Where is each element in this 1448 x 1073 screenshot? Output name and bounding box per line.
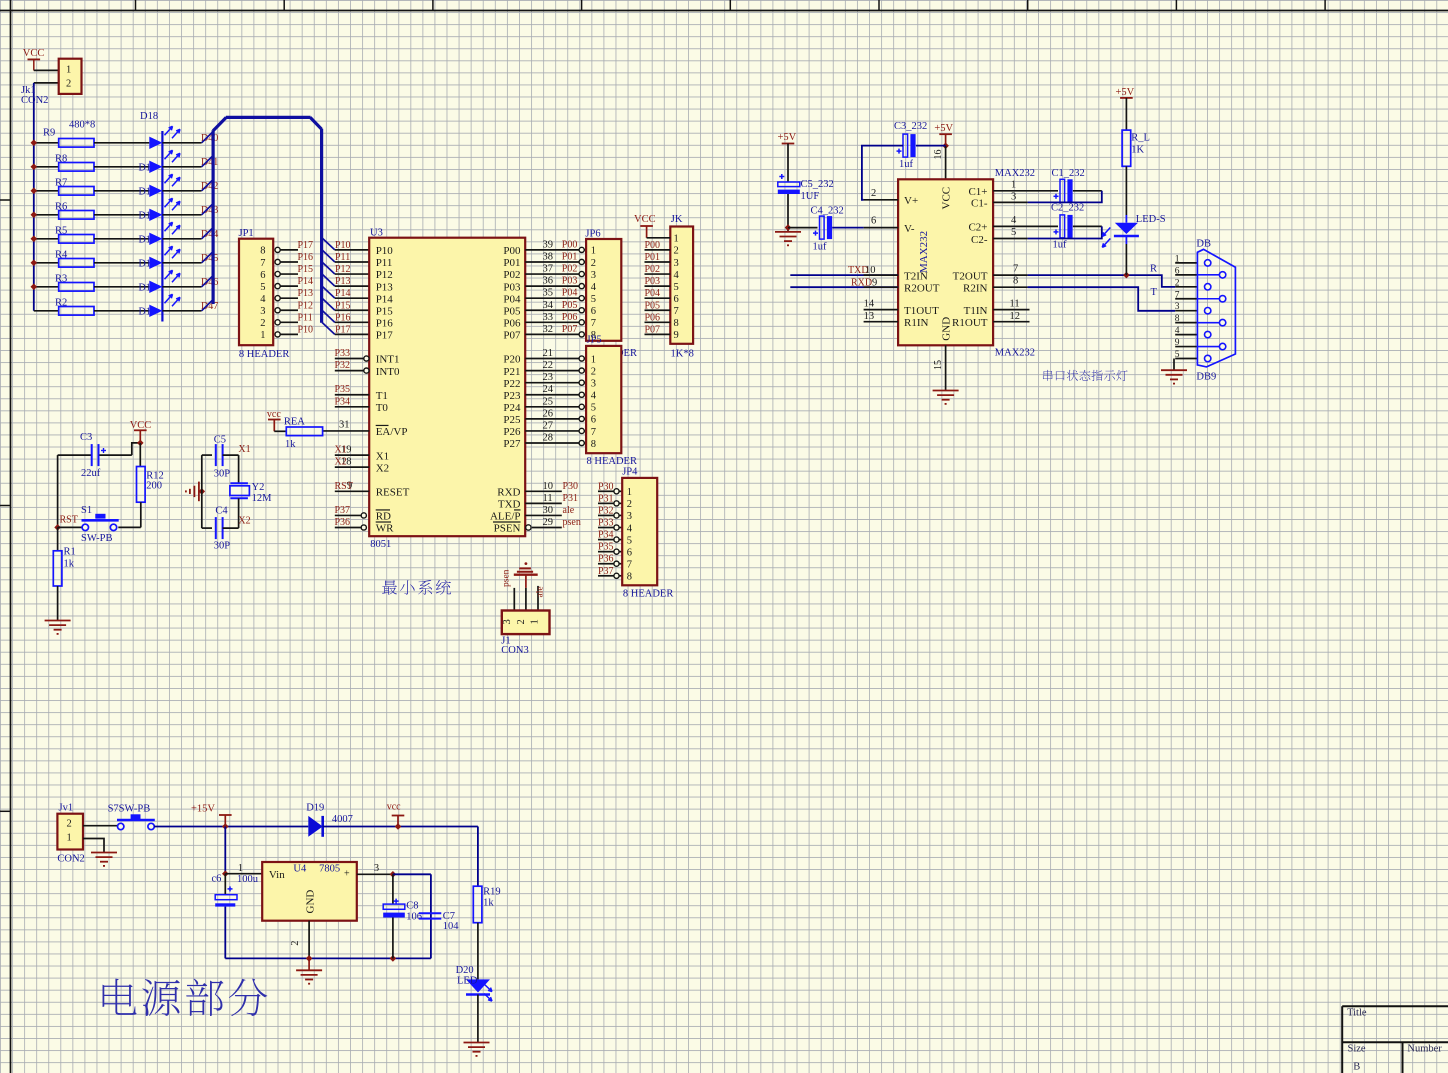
svg-text:VCC: VCC (941, 187, 953, 210)
svg-text:8: 8 (674, 318, 679, 329)
svg-text:39: 39 (543, 239, 554, 250)
svg-text:25: 25 (543, 396, 554, 407)
svg-text:3: 3 (1011, 192, 1016, 203)
svg-text:P24: P24 (503, 402, 521, 414)
svg-text:T1OUT: T1OUT (904, 305, 939, 317)
svg-text:C2_232: C2_232 (1051, 203, 1084, 214)
svg-text:+5V: +5V (778, 132, 797, 143)
svg-text:S7SW-PB: S7SW-PB (108, 804, 151, 815)
svg-text:100u: 100u (237, 874, 259, 885)
svg-text:DB9: DB9 (1196, 372, 1216, 383)
svg-text:Y2: Y2 (252, 482, 265, 493)
svg-text:PSEN: PSEN (494, 523, 521, 535)
svg-text:REA: REA (284, 417, 305, 428)
svg-text:1UF: 1UF (801, 191, 820, 202)
svg-text:JP5: JP5 (587, 335, 602, 346)
svg-text:4: 4 (591, 282, 597, 293)
svg-text:22uf: 22uf (81, 468, 101, 479)
svg-text:14: 14 (864, 299, 875, 310)
svg-text:7: 7 (591, 318, 596, 329)
svg-text:R1IN: R1IN (904, 317, 929, 329)
svg-text:P01: P01 (503, 257, 520, 269)
svg-text:24: 24 (543, 384, 554, 395)
svg-text:P03: P03 (562, 276, 578, 287)
svg-text:P07: P07 (503, 330, 521, 342)
svg-text:X2: X2 (376, 462, 389, 474)
svg-text:1: 1 (1175, 254, 1180, 264)
svg-text:DB: DB (1196, 239, 1211, 250)
svg-text:SW-PB: SW-PB (81, 533, 113, 544)
svg-text:GND: GND (305, 890, 317, 914)
svg-text:+5V: +5V (1116, 87, 1135, 98)
svg-text:P06: P06 (562, 312, 578, 323)
svg-text:6: 6 (627, 547, 632, 558)
svg-text:12M: 12M (252, 493, 273, 504)
svg-text:32: 32 (543, 324, 554, 335)
svg-text:P37: P37 (335, 505, 351, 516)
svg-text:26: 26 (543, 408, 554, 419)
svg-text:7: 7 (260, 258, 265, 269)
svg-text:P32: P32 (335, 360, 351, 371)
svg-text:R_L: R_L (1131, 133, 1150, 144)
svg-text:2: 2 (67, 818, 72, 829)
svg-text:4: 4 (591, 391, 597, 402)
svg-text:7: 7 (1175, 290, 1180, 300)
svg-text:P05: P05 (503, 305, 521, 317)
svg-text:4: 4 (627, 523, 633, 534)
svg-text:12: 12 (1010, 311, 1021, 322)
svg-text:P10: P10 (376, 245, 394, 257)
svg-text:5: 5 (1011, 227, 1016, 238)
svg-text:P35: P35 (598, 542, 614, 553)
svg-text:P15: P15 (376, 305, 394, 317)
svg-text:vcc: vcc (387, 802, 401, 813)
svg-text:5: 5 (591, 403, 596, 414)
svg-text:Vin: Vin (269, 869, 285, 881)
svg-text:1K: 1K (1131, 145, 1144, 156)
svg-text:P00: P00 (645, 240, 661, 251)
svg-text:7: 7 (591, 427, 596, 438)
svg-text:MAX232: MAX232 (995, 168, 1035, 179)
svg-text:D20: D20 (456, 965, 474, 976)
svg-text:T2OUT: T2OUT (953, 270, 988, 282)
svg-text:23: 23 (543, 372, 554, 383)
svg-text:TXD: TXD (498, 499, 521, 511)
svg-text:P06: P06 (645, 312, 661, 323)
svg-text:P33: P33 (335, 348, 351, 359)
svg-text:1k: 1k (483, 898, 494, 909)
svg-text:1: 1 (591, 354, 596, 365)
svg-text:R8: R8 (55, 153, 67, 164)
svg-text:10: 10 (865, 265, 876, 276)
svg-text:P03: P03 (645, 276, 661, 287)
svg-text:8 HEADER: 8 HEADER (587, 456, 637, 467)
svg-text:P05: P05 (645, 300, 661, 311)
svg-text:35: 35 (543, 288, 554, 299)
svg-text:6: 6 (871, 216, 876, 227)
svg-text:JP4: JP4 (622, 467, 638, 478)
svg-text:P15: P15 (335, 300, 351, 311)
svg-text:3: 3 (591, 270, 596, 281)
svg-text:3: 3 (591, 378, 596, 389)
svg-text:P11: P11 (335, 252, 350, 263)
svg-text:P06: P06 (503, 318, 521, 330)
svg-text:P05: P05 (562, 300, 578, 311)
svg-text:9: 9 (872, 278, 877, 289)
svg-text:T: T (1151, 287, 1158, 298)
svg-text:R9: R9 (43, 128, 55, 139)
svg-text:R3: R3 (55, 273, 67, 284)
svg-text:D18: D18 (140, 111, 158, 122)
svg-text:3: 3 (374, 863, 379, 874)
svg-text:P36: P36 (598, 554, 614, 565)
svg-text:30P: 30P (214, 541, 231, 552)
svg-text:X1: X1 (335, 445, 347, 456)
svg-text:WR: WR (376, 523, 394, 535)
svg-text:VCC: VCC (130, 420, 152, 431)
svg-text:R1OUT: R1OUT (952, 317, 988, 329)
svg-text:C1+: C1+ (968, 186, 987, 198)
svg-text:C2-: C2- (971, 234, 988, 246)
svg-text:2: 2 (1175, 278, 1180, 288)
svg-text:6: 6 (1175, 266, 1180, 276)
svg-text:P04: P04 (503, 293, 521, 305)
svg-text:P00: P00 (503, 245, 521, 257)
svg-text:CON3: CON3 (501, 645, 528, 656)
svg-text:P37: P37 (598, 566, 614, 577)
svg-text:P04: P04 (645, 288, 661, 299)
svg-text:JP6: JP6 (585, 229, 600, 240)
svg-text:4: 4 (1175, 326, 1180, 336)
svg-text:INT0: INT0 (376, 366, 400, 378)
svg-text:11: 11 (543, 493, 553, 504)
svg-text:P13: P13 (298, 288, 314, 299)
svg-text:P31: P31 (563, 493, 579, 504)
svg-text:P30: P30 (598, 481, 614, 492)
svg-text:5: 5 (591, 294, 596, 305)
svg-text:P00: P00 (562, 239, 578, 250)
svg-text:R7: R7 (55, 177, 67, 188)
svg-text:CON2: CON2 (57, 854, 84, 865)
svg-text:P26: P26 (503, 426, 521, 438)
svg-text:7: 7 (674, 306, 679, 317)
svg-text:RD: RD (376, 511, 391, 523)
svg-text:LED: LED (457, 976, 478, 987)
svg-text:P17: P17 (335, 324, 351, 335)
svg-text:P32: P32 (598, 505, 614, 516)
svg-text:ALE/P: ALE/P (490, 511, 521, 523)
svg-text:U4: U4 (293, 864, 307, 875)
svg-text:C4_232: C4_232 (811, 206, 844, 217)
svg-text:2: 2 (871, 188, 876, 199)
svg-text:P17: P17 (376, 330, 394, 342)
svg-text:CON2: CON2 (21, 95, 48, 106)
svg-text:4: 4 (260, 294, 266, 305)
svg-text:P20: P20 (503, 354, 521, 366)
svg-text:104: 104 (443, 921, 460, 932)
svg-text:P12: P12 (376, 269, 393, 281)
svg-text:P35: P35 (335, 384, 351, 395)
svg-text:27: 27 (543, 420, 554, 431)
svg-text:21: 21 (543, 348, 554, 359)
svg-text:INT1: INT1 (376, 354, 400, 366)
svg-text:C8: C8 (406, 901, 418, 912)
svg-text:2: 2 (260, 318, 265, 329)
svg-text:X2: X2 (335, 457, 347, 468)
svg-text:P04: P04 (562, 288, 578, 299)
svg-text:1uf: 1uf (1053, 240, 1068, 251)
svg-text:1: 1 (1011, 180, 1016, 191)
svg-text:200: 200 (146, 481, 162, 492)
svg-text:C2+: C2+ (968, 222, 987, 234)
svg-text:22: 22 (543, 360, 554, 371)
svg-text:MAX232: MAX232 (918, 231, 930, 273)
svg-text:9: 9 (674, 330, 679, 341)
svg-text:P13: P13 (376, 281, 394, 293)
svg-text:R19: R19 (483, 887, 501, 898)
svg-text:P03: P03 (503, 281, 521, 293)
svg-text:P16: P16 (376, 318, 394, 330)
svg-text:P16: P16 (298, 252, 314, 263)
svg-text:1uf: 1uf (813, 242, 828, 253)
svg-text:1K*8: 1K*8 (671, 349, 694, 360)
svg-text:JP1: JP1 (239, 228, 254, 239)
svg-text:C5: C5 (214, 435, 226, 446)
svg-text:P17: P17 (298, 240, 314, 251)
svg-text:T1: T1 (376, 390, 388, 402)
svg-text:31: 31 (339, 419, 350, 430)
svg-text:C3: C3 (80, 432, 92, 443)
svg-text:V-: V- (904, 223, 915, 235)
svg-text:2: 2 (66, 78, 71, 89)
svg-text:9: 9 (1175, 338, 1180, 348)
svg-text:33: 33 (543, 312, 554, 323)
svg-text:LED-S: LED-S (1136, 214, 1166, 225)
svg-text:Jv1: Jv1 (59, 803, 74, 814)
svg-text:1uf: 1uf (899, 159, 914, 170)
svg-text:2: 2 (627, 499, 632, 510)
svg-text:R4: R4 (55, 249, 68, 260)
svg-text:P36: P36 (335, 517, 351, 528)
svg-text:7: 7 (627, 560, 632, 571)
svg-text:1: 1 (674, 234, 679, 245)
svg-text:6: 6 (260, 270, 265, 281)
svg-text:30P: 30P (214, 469, 231, 480)
svg-text:psen: psen (502, 569, 512, 587)
svg-text:T0: T0 (376, 402, 389, 414)
svg-text:c6: c6 (212, 874, 222, 885)
svg-text:1: 1 (260, 330, 265, 341)
svg-text:R1: R1 (64, 547, 76, 558)
svg-text:37: 37 (543, 264, 554, 275)
svg-text:P12: P12 (298, 300, 314, 311)
svg-text:480*8: 480*8 (69, 120, 95, 131)
svg-text:2: 2 (290, 941, 301, 946)
svg-text:30: 30 (543, 505, 554, 516)
svg-text:R2IN: R2IN (963, 283, 988, 295)
svg-text:11: 11 (1010, 299, 1020, 310)
svg-text:6: 6 (591, 415, 596, 426)
svg-text:P10: P10 (298, 324, 314, 335)
svg-text:Title: Title (1347, 1008, 1367, 1019)
svg-text:P11: P11 (376, 257, 393, 269)
svg-text:+5V: +5V (934, 123, 953, 134)
svg-text:P34: P34 (335, 396, 351, 407)
svg-text:3: 3 (674, 258, 679, 269)
svg-text:P02: P02 (645, 264, 661, 275)
svg-text:P23: P23 (503, 390, 521, 402)
svg-text:2: 2 (591, 258, 596, 269)
svg-text:P11: P11 (298, 312, 313, 323)
svg-text:JK: JK (671, 214, 683, 225)
svg-text:5: 5 (674, 282, 679, 293)
svg-text:34: 34 (543, 300, 554, 311)
svg-text:1: 1 (627, 487, 632, 498)
svg-text:VCC: VCC (634, 214, 656, 225)
svg-text:P12: P12 (335, 264, 351, 275)
svg-text:C3_232: C3_232 (894, 121, 927, 132)
svg-text:P16: P16 (335, 312, 351, 323)
svg-text:8: 8 (627, 572, 632, 583)
svg-text:P02: P02 (562, 264, 578, 275)
svg-text:vcc: vcc (267, 409, 281, 420)
svg-text:8: 8 (260, 246, 265, 257)
svg-text:8: 8 (591, 439, 596, 450)
svg-text:P01: P01 (645, 252, 661, 263)
svg-text:GND: GND (941, 317, 953, 341)
svg-text:P33: P33 (598, 518, 614, 529)
svg-text:RST: RST (60, 515, 78, 526)
svg-text:P25: P25 (503, 414, 521, 426)
svg-text:10: 10 (543, 481, 554, 492)
svg-text:1: 1 (530, 619, 541, 624)
svg-text:S1: S1 (81, 505, 92, 516)
svg-text:P14: P14 (298, 276, 314, 287)
svg-text:1k: 1k (64, 559, 75, 570)
svg-text:Number: Number (1407, 1044, 1442, 1055)
svg-text:6: 6 (591, 306, 596, 317)
svg-text:RXD: RXD (497, 487, 520, 499)
svg-text:5: 5 (260, 282, 265, 293)
svg-text:5: 5 (1175, 350, 1180, 360)
svg-text:P07: P07 (562, 324, 578, 335)
svg-text:7805: 7805 (319, 864, 340, 875)
svg-text:P07: P07 (645, 324, 661, 335)
svg-text:P27: P27 (503, 438, 521, 450)
svg-text:R5: R5 (55, 225, 67, 236)
svg-text:R2OUT: R2OUT (904, 283, 940, 295)
svg-text:8 HEADER: 8 HEADER (239, 349, 289, 360)
svg-text:VCC: VCC (23, 48, 45, 59)
svg-text:5: 5 (627, 535, 632, 546)
svg-text:RESET: RESET (376, 487, 410, 499)
svg-text:8: 8 (1175, 314, 1180, 324)
svg-text:C5_232: C5_232 (801, 179, 834, 190)
svg-text:Size: Size (1348, 1044, 1366, 1055)
svg-text:1: 1 (238, 863, 243, 874)
svg-text:2: 2 (591, 366, 596, 377)
svg-text:P14: P14 (376, 293, 394, 305)
svg-text:C4: C4 (215, 506, 228, 517)
svg-text:4: 4 (1011, 215, 1017, 226)
svg-text:1: 1 (591, 246, 596, 257)
svg-text:P30: P30 (563, 481, 579, 492)
svg-text:psen: psen (563, 517, 581, 528)
svg-text:3: 3 (260, 306, 265, 317)
svg-text:2: 2 (516, 619, 527, 624)
svg-text:16: 16 (933, 150, 944, 160)
svg-text:28: 28 (543, 433, 554, 444)
svg-text:C1_232: C1_232 (1052, 168, 1085, 179)
svg-text:RXD: RXD (851, 278, 872, 289)
svg-text:P14: P14 (335, 288, 351, 299)
svg-text:ale: ale (536, 586, 546, 597)
svg-text:1k: 1k (285, 439, 296, 450)
svg-text:U3: U3 (370, 228, 383, 239)
svg-text:P15: P15 (298, 264, 314, 275)
svg-text:13: 13 (864, 311, 875, 322)
svg-text:15: 15 (933, 360, 944, 370)
svg-text:P01: P01 (562, 251, 578, 262)
svg-text:6: 6 (674, 294, 679, 305)
svg-text:ale: ale (563, 505, 575, 516)
svg-text:T2IN: T2IN (904, 270, 928, 282)
svg-text:P22: P22 (503, 378, 520, 390)
svg-text:+: + (344, 869, 350, 880)
svg-text:3: 3 (502, 619, 513, 624)
svg-text:P13: P13 (335, 276, 351, 287)
svg-text:3: 3 (1175, 302, 1180, 312)
svg-text:38: 38 (543, 251, 554, 262)
svg-text:T1IN: T1IN (964, 305, 988, 317)
svg-text:MAX232: MAX232 (995, 348, 1035, 359)
svg-text:8 HEADER: 8 HEADER (623, 589, 673, 600)
svg-text:29: 29 (543, 517, 554, 528)
svg-text:R6: R6 (55, 201, 67, 212)
svg-text:P02: P02 (503, 269, 520, 281)
svg-text:X1: X1 (376, 450, 389, 462)
svg-text:2: 2 (674, 246, 679, 257)
svg-text:1: 1 (67, 832, 72, 843)
svg-text:4007: 4007 (332, 814, 353, 825)
svg-text:+15V: +15V (191, 804, 215, 815)
svg-text:X1: X1 (238, 444, 250, 455)
svg-text:RST: RST (335, 481, 353, 492)
svg-text:36: 36 (543, 276, 554, 287)
svg-text:B: B (1353, 1062, 1360, 1073)
svg-text:P34: P34 (598, 530, 614, 541)
svg-text:4: 4 (674, 270, 680, 281)
svg-text:1: 1 (66, 64, 71, 75)
svg-text:R2: R2 (55, 297, 67, 308)
svg-text:C1-: C1- (971, 198, 988, 210)
svg-text:3: 3 (627, 511, 632, 522)
svg-text:P31: P31 (598, 493, 614, 504)
svg-text:X2: X2 (238, 516, 250, 527)
svg-text:8: 8 (1013, 276, 1018, 287)
svg-text:7: 7 (1013, 264, 1018, 275)
svg-text:P21: P21 (503, 366, 520, 378)
svg-text:EA/VP: EA/VP (376, 426, 408, 438)
svg-text:P10: P10 (335, 240, 351, 251)
svg-text:D19: D19 (306, 803, 324, 814)
svg-text:8051: 8051 (370, 539, 391, 550)
svg-text:V+: V+ (904, 195, 918, 207)
svg-text:R: R (1150, 264, 1157, 275)
